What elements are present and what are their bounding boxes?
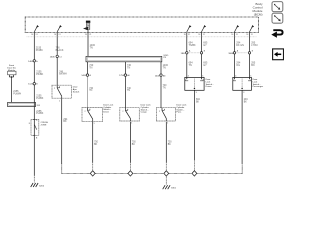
svg-text:PU/BK: PU/BK: [36, 97, 44, 100]
svg-text:DK GN: DK GN: [236, 44, 244, 47]
svg-text:4: 4: [188, 76, 189, 78]
svg-text:(BCM): (BCM): [254, 12, 263, 16]
svg-text:G301: G301: [171, 188, 177, 190]
svg-text:PK/BK: PK/BK: [36, 73, 43, 76]
svg-text:BN: BN: [251, 64, 255, 67]
svg-text:14: 14: [59, 56, 61, 58]
svg-text:S205: S205: [163, 55, 169, 57]
svg-text:3: 3: [243, 92, 244, 94]
svg-text:X1: X1: [236, 34, 238, 36]
svg-text:2: 2: [84, 111, 85, 113]
svg-text:8: 8: [29, 123, 30, 125]
svg-text:TN/BK: TN/BK: [189, 44, 196, 47]
svg-text:1400: 1400: [155, 76, 161, 78]
svg-text:1406: 1406: [28, 61, 34, 63]
svg-text:1750: 1750: [119, 75, 125, 77]
svg-text:1: 1: [131, 122, 132, 124]
svg-text:TN: TN: [127, 90, 130, 92]
svg-text:X1: X1: [203, 34, 205, 36]
svg-text:LT BU: LT BU: [251, 44, 258, 47]
svg-text:BK: BK: [196, 102, 200, 104]
svg-text:GY: GY: [203, 44, 207, 47]
svg-text:1: 1: [167, 122, 168, 124]
svg-text:TN: TN: [189, 64, 192, 67]
svg-text:BK: BK: [132, 144, 136, 146]
svg-text:CRUSH: CRUSH: [41, 122, 49, 124]
svg-text:1121: 1121: [28, 84, 33, 86]
svg-text:1808: 1808: [228, 53, 234, 55]
svg-text:TN: TN: [163, 66, 166, 69]
svg-text:G200: G200: [39, 185, 45, 187]
svg-text:BK: BK: [244, 102, 248, 104]
svg-text:BK: BK: [63, 120, 67, 123]
svg-text:TN: TN: [89, 90, 92, 92]
svg-text:2: 2: [159, 111, 160, 113]
svg-text:BK: BK: [94, 144, 98, 146]
svg-text:PU/WH: PU/WH: [13, 92, 21, 95]
svg-text:TN: TN: [127, 67, 130, 70]
svg-text:5: 5: [250, 76, 251, 78]
svg-text:BLACK: BLACK: [56, 49, 64, 52]
svg-text:X1: X1: [251, 34, 253, 36]
svg-text:GY: GY: [203, 64, 207, 67]
svg-text:BK: BK: [168, 144, 172, 146]
svg-text:1306: 1306: [50, 56, 56, 58]
svg-text:2: 2: [122, 111, 123, 113]
svg-text:X1: X1: [58, 34, 60, 36]
svg-text:4: 4: [235, 76, 236, 78]
svg-text:X1: X1: [36, 34, 38, 36]
svg-text:PU/BK: PU/BK: [36, 112, 44, 115]
svg-text:3: 3: [196, 92, 197, 94]
svg-text:TN: TN: [163, 87, 166, 89]
svg-text:1: 1: [59, 100, 60, 102]
svg-text:TN: TN: [89, 67, 92, 70]
svg-text:X1: X1: [89, 34, 91, 36]
svg-text:1400: 1400: [81, 75, 87, 77]
svg-text:ZONE: ZONE: [41, 125, 47, 127]
svg-text:5: 5: [202, 76, 203, 78]
svg-text:OG: OG: [236, 64, 240, 67]
svg-text:2: 2: [54, 88, 55, 90]
svg-text:1: 1: [94, 123, 95, 125]
svg-text:PK/BK: PK/BK: [36, 49, 43, 52]
svg-text:X1: X1: [188, 34, 190, 36]
svg-text:BK/WH: BK/WH: [59, 74, 67, 76]
svg-text:TN: TN: [90, 46, 93, 49]
svg-text:1807: 1807: [181, 53, 187, 55]
